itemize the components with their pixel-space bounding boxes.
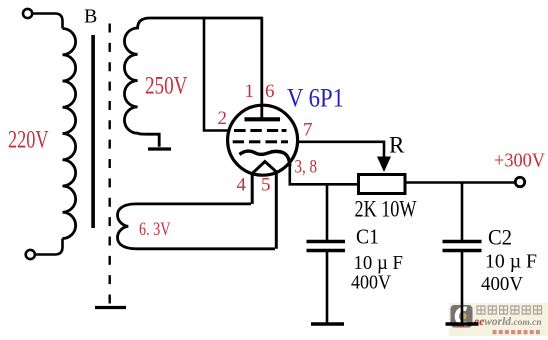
watermark logo red mark [457, 324, 464, 328]
watermark logo crescent [457, 309, 467, 324]
svg-text:220V: 220V [8, 127, 49, 154]
wire primary bottom to terminal [36, 239, 63, 255]
svg-text:400V: 400V [351, 272, 391, 294]
svg-text:7: 7 [303, 120, 313, 141]
svg-text:6. 3V: 6. 3V [139, 219, 171, 240]
terminal bottom-left (220V input) [26, 250, 35, 259]
svg-text:C1: C1 [356, 225, 379, 249]
ground C1 [311, 322, 344, 325]
svg-text:250V: 250V [145, 73, 188, 100]
tube screen grid (pin 2) [234, 129, 287, 132]
watermark background [449, 303, 548, 336]
svg-text:+300V: +300V [494, 151, 545, 172]
capacitor C1 plates [307, 240, 346, 243]
shield line (dashed) [108, 24, 110, 304]
ground 250V [148, 147, 171, 150]
wire C2 branch [461, 183, 464, 241]
watermark logo dot [460, 313, 466, 319]
wire anode lead [260, 17, 263, 119]
secondary winding 250V with top wire [124, 18, 261, 147]
wire cathode to resistor left [290, 164, 359, 184]
tube control grid (pin 7) [233, 140, 288, 143]
svg-text:V 6P1: V 6P1 [287, 84, 344, 113]
svg-text:1: 1 [245, 81, 255, 102]
tube cathode [240, 151, 290, 166]
capacitor C2 plates [443, 240, 482, 243]
svg-text:B: B [84, 6, 97, 28]
wire C1 branch [326, 184, 329, 240]
svg-text:6: 6 [265, 81, 275, 102]
svg-text:400V: 400V [481, 273, 524, 295]
svg-text:C2: C2 [488, 225, 512, 250]
terminal top-left (220V input) [23, 9, 32, 18]
tube heater filament with pin4/pin5 leads [252, 162, 276, 249]
watermark logo square [451, 305, 473, 328]
svg-text:2: 2 [218, 108, 228, 129]
watermark chinese title 电子工程世界 [477, 306, 542, 314]
wire terminal to primary top [33, 14, 63, 29]
svg-text:5: 5 [261, 175, 271, 196]
wire junction to pin 2 [204, 17, 229, 131]
heater winding 6.3V [118, 204, 276, 249]
resistor R body [359, 175, 406, 194]
svg-text:10 µ F: 10 µ F [485, 251, 537, 273]
svg-text:2K 10W: 2K 10W [355, 197, 417, 222]
svg-text:3, 8: 3, 8 [295, 157, 318, 178]
wire resistor to +300V terminal [405, 181, 515, 184]
wire C2 to ground [461, 252, 464, 323]
wiper arrow [377, 157, 391, 173]
terminal +300V [515, 177, 524, 186]
watermark small red slogan [493, 330, 540, 334]
wire pin7 to wiper [298, 142, 385, 157]
svg-text:4: 4 [237, 175, 247, 196]
tube anode plate [245, 117, 281, 121]
wire C1 to ground [326, 252, 329, 323]
transformer core [91, 35, 95, 228]
ground shield [95, 306, 126, 309]
tube V1 envelope [228, 105, 298, 175]
svg-text:eeworld.com.cn: eeworld.com.cn [474, 316, 542, 328]
svg-text:R: R [389, 133, 405, 158]
transformer primary winding 220V [63, 29, 76, 239]
ground C2 [446, 322, 479, 325]
